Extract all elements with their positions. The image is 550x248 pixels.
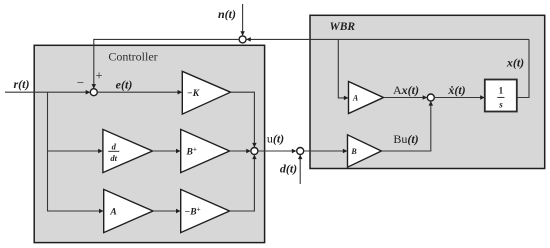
summing junction S3 (disturbance) bbox=[297, 148, 304, 155]
wire B+ out to summing S2 bbox=[230, 150, 251, 152]
wire -K out down to summing S2 bbox=[231, 92, 255, 147]
svg-text:A: A bbox=[109, 208, 116, 218]
svg-text:WBR: WBR bbox=[330, 21, 356, 33]
wire d/dt out to B+ bbox=[153, 150, 181, 152]
svg-text:B: B bbox=[350, 147, 357, 156]
summing junction S1 (error) bbox=[90, 89, 97, 96]
wire A out to -B+ bbox=[153, 210, 180, 212]
gain B+ triangle bbox=[181, 129, 230, 172]
wire Ax(t) to summing S4 bbox=[384, 97, 427, 99]
wire branch to plant A bbox=[338, 39, 348, 98]
svg-text:Bu(t): Bu(t) bbox=[393, 132, 418, 146]
wire e(t) to -K bbox=[97, 91, 181, 93]
svg-text:Controller: Controller bbox=[108, 50, 157, 64]
wire r(t) input bbox=[5, 91, 90, 93]
gain A triangle (controller) bbox=[104, 189, 153, 232]
summing junction S5 (noise) bbox=[239, 36, 246, 43]
gain -B+ triangle bbox=[181, 189, 230, 232]
gain d/dt triangle bbox=[103, 129, 153, 172]
svg-text:e(t): e(t) bbox=[116, 78, 133, 92]
label d/dt value bbox=[108, 142, 119, 164]
svg-text:ẋ(t): ẋ(t) bbox=[447, 83, 465, 97]
svg-text:Ax(t): Ax(t) bbox=[393, 83, 419, 97]
wire d(t) input from below bbox=[299, 155, 301, 184]
label 1/s value bbox=[497, 86, 504, 110]
wire u(t) to S3 bbox=[258, 150, 296, 152]
wire xdot to integrator bbox=[434, 97, 484, 99]
gain A triangle (plant) bbox=[349, 82, 384, 114]
svg-text:d: d bbox=[112, 142, 117, 152]
svg-text:u(t): u(t) bbox=[267, 132, 284, 146]
svg-text:s: s bbox=[498, 100, 503, 110]
svg-text:+: + bbox=[95, 69, 102, 83]
wire branch to d/dt bbox=[47, 150, 102, 152]
wire -B+ out up to summing S2 bbox=[230, 155, 255, 211]
wire branch to A bbox=[47, 210, 103, 212]
svg-text:1: 1 bbox=[499, 86, 504, 96]
svg-text:dt: dt bbox=[110, 153, 117, 163]
integrator 1/s box bbox=[485, 80, 517, 112]
svg-text:−K: −K bbox=[187, 89, 200, 99]
WBR block box bbox=[310, 15, 545, 168]
svg-text:r(t): r(t) bbox=[14, 77, 30, 91]
svg-text:d(t): d(t) bbox=[280, 162, 297, 176]
wire n(t) input down bbox=[242, 4, 244, 35]
wire feedback top line into S5 bbox=[247, 38, 529, 40]
wire S5 out left and down to S1 bbox=[94, 39, 240, 88]
summing junction S2 (u) bbox=[251, 148, 258, 155]
svg-text:n(t): n(t) bbox=[218, 7, 236, 21]
op-amp gain -K bbox=[182, 71, 230, 114]
svg-text:x(t): x(t) bbox=[506, 56, 524, 70]
summing junction S4 (xdot) bbox=[427, 94, 434, 101]
svg-text:−: − bbox=[77, 75, 84, 90]
wire S3 to B bbox=[304, 150, 347, 152]
gain B triangle (plant) bbox=[348, 135, 382, 167]
wire integrator out up (x feedback) bbox=[517, 39, 529, 97]
Controller block box bbox=[34, 45, 264, 242]
svg-text:A: A bbox=[352, 94, 359, 103]
node r branch junction / wire down to rows bbox=[47, 92, 49, 211]
wire Bu(t) up to summing S4 bbox=[381, 102, 430, 151]
